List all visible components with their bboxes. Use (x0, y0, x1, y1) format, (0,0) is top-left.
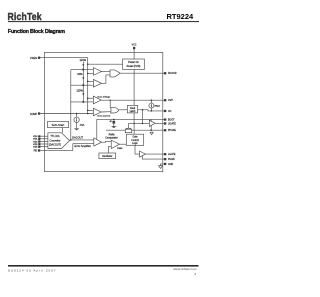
wire DACOUT to error amp (70, 139, 94, 141)
POR box Power On Reset (123, 59, 145, 70)
svg-text:Comparator: Comparator (105, 136, 118, 139)
wire latch branch down (142, 110, 144, 124)
node rail B junction (133, 123, 135, 125)
svg-text:10µA: 10µA (80, 123, 85, 126)
pin UGATE (164, 122, 176, 125)
comparator comp1 PGOOD upper (93, 68, 101, 76)
box soft-start above DAC (48, 121, 69, 127)
svg-text:OVP: OVP (168, 100, 173, 102)
svg-text:VCC: VCC (132, 45, 137, 47)
svg-text:Soft-Start: Soft-Start (52, 123, 65, 127)
oscillator box (99, 153, 116, 159)
node latch out junction (142, 109, 144, 111)
driver upper UGATE (149, 120, 155, 126)
pin OC (164, 110, 172, 113)
wire PWM comp to gate logic (120, 143, 127, 145)
svg-text:90%: 90% (77, 72, 83, 76)
svg-text:200µA: 200µA (154, 105, 160, 108)
svg-text:Over-Current: Over-Current (97, 115, 110, 118)
svg-text:110%: 110% (79, 58, 86, 62)
wire stub comp4 plus (88, 109, 94, 111)
pin VID3 (33, 143, 48, 146)
svg-text:Fault: Fault (130, 107, 135, 110)
wire OR out to latch (119, 109, 128, 111)
node chain tap 2 (82, 84, 84, 86)
comparator comp4 over-current (93, 108, 101, 115)
svg-text:TTL D/A: TTL D/A (50, 135, 60, 138)
pin PGOOD (164, 72, 177, 75)
node label PWM Comparator (105, 133, 118, 139)
resistor arrow 2 (82, 77, 84, 80)
wire tap1 to comp1 (71, 69, 94, 71)
phase sense arrow (150, 132, 153, 135)
svg-text:Control: Control (131, 139, 139, 142)
pin VID2 (33, 141, 48, 144)
svg-text:PWM: PWM (117, 148, 123, 150)
node latch branch dot (142, 123, 144, 125)
pin VID0 (33, 135, 48, 138)
svg-text:Power On: Power On (128, 61, 139, 64)
svg-text:RichTek: RichTek (8, 11, 43, 22)
svg-text:www.richtek.com: www.richtek.com (173, 267, 197, 271)
svg-text:PHASE: PHASE (168, 129, 176, 132)
wire comp3 out OVP net (101, 99, 164, 101)
wire VSEN riser (40, 58, 87, 114)
pin LGATE (164, 153, 176, 156)
wire comp2 out to AND gate (102, 75, 111, 83)
node DACOUT junction (70, 139, 72, 141)
wire DACOUT riser (70, 70, 72, 140)
logic gate AND PGOOD (110, 70, 120, 77)
wire tap2 to comp2 (71, 84, 94, 86)
current source 200uA (149, 100, 161, 111)
wire stub comp2 plus (88, 80, 94, 82)
node comp3 branch junction (110, 100, 111, 101)
svg-text:PGND: PGND (168, 159, 175, 161)
svg-text:Oscillator: Oscillator (102, 155, 113, 158)
node PHASE junction (150, 129, 152, 131)
svg-text:VSEN: VSEN (30, 56, 37, 60)
svg-text:(DACOUT): (DACOUT) (49, 144, 61, 147)
wire latch to OC pin (138, 110, 164, 111)
node OVP junction (151, 99, 153, 101)
wire comp4 out to OR gate (101, 111, 110, 113)
pin VID4 (33, 146, 48, 149)
pin VCC (132, 45, 137, 50)
resistor arrow 3 (82, 93, 84, 96)
current source 10uA (74, 114, 85, 129)
svg-text:Gate: Gate (133, 136, 139, 139)
wire error amp out to PWM comp (102, 140, 112, 143)
logic gate OR fault (111, 108, 119, 113)
wire COMP soft-start net (40, 113, 93, 115)
svg-text:DACOUT: DACOUT (72, 136, 83, 140)
resistor arrow 1 (82, 64, 84, 67)
svg-text:LGATE: LGATE (168, 153, 176, 156)
svg-text:PGOOD: PGOOD (168, 73, 177, 75)
svg-text:115%: 115% (76, 89, 83, 93)
svg-text:COMP: COMP (30, 113, 38, 116)
svg-text:GND: GND (168, 164, 173, 166)
wire PGOOD net (120, 72, 164, 74)
wire UGATE (155, 122, 164, 124)
node riser comp4 (87, 110, 89, 112)
wire POR to latch (133, 70, 135, 106)
pin OVP (164, 99, 173, 102)
wire tap3 to comp3 (71, 101, 94, 103)
svg-text:VID4: VID4 (33, 147, 38, 149)
resistor divider chain (82, 62, 84, 102)
svg-text:DS9224-05 April 2007: DS9224-05 April 2007 (8, 269, 56, 273)
svg-text:Reset (POR): Reset (POR) (127, 65, 141, 68)
node 10uA junction (76, 113, 78, 115)
wire stub comp3 plus (88, 97, 94, 99)
wire rail B gate drive (129, 122, 150, 124)
wire PHASE rail (106, 129, 164, 131)
wire oscillator to PWM comp (109, 146, 112, 153)
logic box gate control (126, 134, 143, 145)
wire FB to error amp (40, 144, 94, 151)
inhibit clamp square (113, 121, 116, 124)
node riser comp3 (87, 97, 89, 99)
svg-text:4V: 4V (109, 121, 112, 123)
svg-text:Logic: Logic (132, 143, 138, 145)
svg-text:Converter: Converter (50, 139, 61, 142)
DAC TTL D/A converter (48, 133, 70, 149)
ground under 10uA source (74, 128, 80, 130)
wire COMP riser to error amp (97, 119, 164, 139)
pin PHASE (164, 129, 176, 132)
svg-text:Latch: Latch (130, 110, 136, 113)
svg-text:Over-Voltage: Over-Voltage (97, 95, 111, 98)
wire PHASE drop (150, 125, 152, 130)
driver lower LGATE (140, 151, 146, 157)
wire PGND (142, 156, 164, 159)
ground symbol (159, 166, 163, 169)
node chain tap 3 (82, 101, 84, 103)
footer rule (8, 265, 199, 267)
node chain tap 1 (82, 69, 84, 71)
pin BOOT (164, 118, 175, 121)
wires and components get added below (30, 45, 177, 169)
wire latch down to gate logic (133, 113, 135, 134)
svg-text:UGATE: UGATE (168, 122, 176, 125)
wire stub comp1 minus (88, 72, 94, 74)
wire VCC to POR (133, 49, 135, 59)
svg-text:RT9224: RT9224 (167, 12, 195, 21)
comparator comp3 over-voltage (93, 96, 101, 104)
svg-text:BOOT: BOOT (168, 120, 175, 122)
pin PGND (164, 158, 175, 161)
pin VSEN (30, 56, 40, 60)
svg-text:3: 3 (194, 272, 196, 276)
op-amp PWM comparator (111, 140, 119, 149)
clamp arrowhead (111, 126, 117, 128)
svg-text:FB: FB (34, 149, 38, 153)
node riser bottom junction (87, 113, 89, 115)
svg-text:Function Block Diagram: Function Block Diagram (8, 29, 65, 35)
comparator comp2 PGOOD lower (93, 79, 101, 87)
node POR input junction (87, 63, 89, 65)
svg-text:Error Amplifier: Error Amplifier (74, 144, 91, 148)
node OC junction (151, 110, 153, 112)
node clamp junction (113, 119, 115, 121)
wire comp1 out to AND gate (102, 71, 111, 73)
wire GND (161, 164, 165, 166)
pin FB (34, 149, 41, 153)
svg-text:OC: OC (168, 111, 172, 113)
wire LGATE (145, 153, 164, 155)
pin COMP (30, 112, 40, 115)
wire clamp arrow (113, 124, 115, 127)
pin VID1 (33, 138, 48, 141)
op-amp error amplifier (94, 138, 102, 146)
wire soft-start box to DAC (61, 128, 63, 133)
delay cell with bubbles (125, 123, 131, 132)
pin GND (164, 163, 173, 166)
header rule (8, 21, 199, 22)
wire POR input (88, 63, 123, 65)
flip-flop fault latch (127, 105, 137, 113)
outer IC boundary box (44, 52, 162, 171)
wire comp3 branch to OR gate (109, 100, 111, 107)
wire gate logic to LGATE driver (135, 145, 140, 154)
node riser comp2 (87, 81, 89, 83)
wire BOOT stub (150, 119, 152, 121)
node riser comp1 (87, 73, 89, 75)
